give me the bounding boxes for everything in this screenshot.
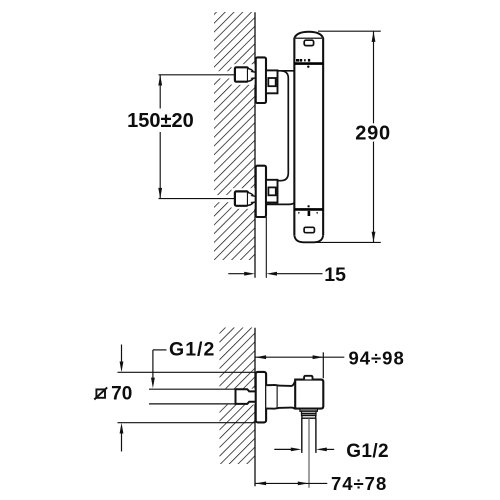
white halo clearing hatch around supply pipe (plan view) [219,389,255,405]
union taper washer (plan view) [266,385,277,409]
dimension 150±20 top arrow [158,75,162,86]
top union nut [235,67,248,81]
G1/2 top label leader [151,350,167,388]
supply pipe upper line (plan view) [149,388,236,390]
dimension G1/2 bottom right arrow [316,448,334,452]
temperature knob on body top [304,376,312,380]
G1/2 bottom text [346,441,389,462]
outlet stack band 4 [302,416,316,419]
wall face line (lower view) [254,328,256,487]
svg-text:70: 70 [111,383,132,404]
pipe nipple through wall [236,389,257,404]
small dot above bottom joint [308,205,310,207]
bottom union tail cone [248,193,256,206]
body top button marks [296,59,310,62]
dimension 150±20 vertical line [159,75,161,199]
dimension 290 top arrow [372,31,376,42]
dimension text 290 [355,122,391,144]
diameter 70 text [111,383,132,404]
dimension 290 extension line bottom [316,241,381,243]
supply pipe lower line (plan view) [149,403,236,405]
svg-text:74÷78: 74÷78 [331,473,387,494]
union nut cylinder with transition to body (plan view) [278,381,296,409]
body top cap line [295,37,324,39]
dimension 74÷78 line with arrows [255,482,327,486]
svg-text:94÷98: 94÷98 [348,347,404,368]
top union tail cone [248,69,256,82]
diameter 70 extension line top [118,371,255,373]
dimension text 150±20 [127,110,194,132]
outlet pipe gray centerline [308,419,310,488]
body bottom joint line [294,208,323,211]
white halo clearing hatch around top union nut [232,64,256,85]
dimension 15 left arrow and tail [228,272,255,276]
mixer body (plan view) [295,380,323,409]
diameter symbol square [94,387,107,399]
dimension G1/2 bottom left arrow [274,448,301,452]
wall face line (upper view) [254,12,256,278]
svg-text:G1/2: G1/2 [346,441,389,462]
dimension 290 vertical line [373,31,375,242]
outlet stack band 1 (gray) [300,409,318,412]
svg-text:150±20: 150±20 [127,110,194,132]
svg-text:15: 15 [324,264,346,286]
bottom union nut [235,191,248,205]
dimension text 74÷78 [331,473,387,494]
diameter 70 dimension top arrow [120,345,124,373]
G1/2 top label text [169,339,215,361]
dimension text 15 [324,264,346,286]
mixer body column (side view) [294,32,323,243]
top union inner square [268,78,275,86]
outlet pipe left edge [301,418,303,453]
dimension 15 right arrow and tail [266,272,322,276]
body top label plate [304,40,313,45]
outlet stack band 2 [302,411,317,413]
escutcheon flange (plan view) [256,372,266,423]
diameter 70 extension line bottom [118,422,255,424]
outlet pipe right edge [315,418,317,453]
top supply pipe centerline [159,74,236,76]
white halo clearing hatch around top supply pipe [214,71,237,78]
wall hatching (lower plan view) [220,328,255,465]
dimension 290 extension line top [318,30,381,32]
bottom check-valve union body [266,180,278,203]
connecting bracket vertical profile [278,71,289,181]
wall hatching (upper side view) [214,12,255,260]
top check-valve union body [266,70,278,93]
dimension 150±20 bottom arrow [158,188,162,199]
connecting bracket bottom arm [266,203,294,205]
body bottom label plate [304,227,314,232]
dimension 290 bottom arrow [372,232,376,243]
white halo clearing hatch around bottom supply pipe [214,195,237,202]
bottom supply pipe centerline [159,198,236,200]
bottom union inner square [268,187,275,195]
body top joint line [294,62,323,65]
outlet stack band 3 (gray) [302,413,317,415]
bottom joint tick marks [298,211,318,216]
union nut boundary line (plan view) [277,385,279,408]
dimension 94÷98 extension line [322,352,324,378]
top escutcheon plate [256,57,266,103]
svg-text:G1/2: G1/2 [169,339,215,361]
diameter 70 dimension bottom arrow [120,423,124,452]
bottom escutcheon plate [256,166,266,217]
white halo clearing hatch around bottom union nut [232,188,256,209]
svg-text:290: 290 [355,122,391,144]
dimension text 94÷98 [348,347,404,368]
extension line below bottom escutcheon [265,217,267,278]
connecting bracket top arm [278,70,295,72]
dimension 94÷98 line with arrows [255,355,344,359]
small dot below top joint [307,66,309,68]
